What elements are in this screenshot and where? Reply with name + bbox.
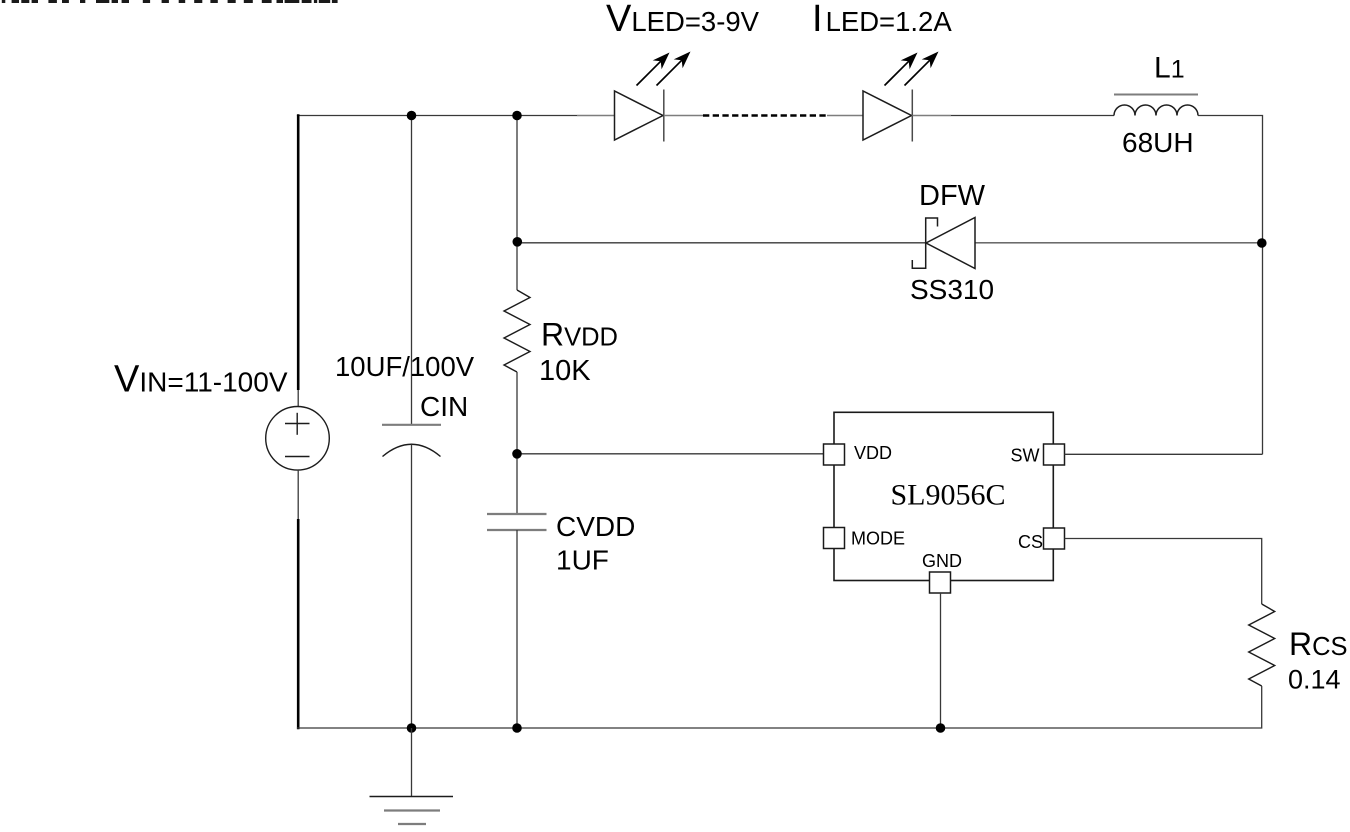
wire to inductor: [951, 115, 1114, 117]
svg-text:SL9056C: SL9056C: [890, 479, 1005, 512]
svg-text:CVDD: CVDD: [556, 511, 635, 542]
inductor L1: [1114, 105, 1198, 116]
wire DFW cathode side (gray): [975, 242, 1263, 244]
svg-text:CIN: CIN: [420, 391, 468, 422]
svg-text:VLED=3-9V: VLED=3-9V: [606, 0, 760, 40]
svg-text:10UF/100V: 10UF/100V: [335, 351, 475, 382]
svg-text:0.14: 0.14: [1288, 665, 1341, 695]
pin VDD square: [824, 444, 845, 465]
resistor RCS: [1249, 604, 1275, 686]
wire VDD rail: [517, 453, 824, 455]
LED D1 arrows: [637, 52, 691, 86]
ground symbol: [370, 728, 454, 824]
svg-text:VDD: VDD: [854, 443, 892, 463]
node dot top rail RVDD: [512, 111, 522, 121]
svg-text:SW: SW: [1011, 446, 1040, 466]
node dot DFW-RVDD: [513, 237, 523, 247]
pin GND square: [930, 572, 951, 593]
LED D2: [863, 90, 912, 142]
capacitor CIN curved plate: [383, 444, 441, 456]
wire DFW rail: [517, 242, 926, 244]
svg-text:GND: GND: [922, 551, 962, 571]
wire RCS to bottom rail: [297, 686, 1262, 728]
node dot bottom GND: [936, 723, 946, 733]
capacitor CIN top plate (gray): [382, 424, 441, 426]
node dot top rail CIN: [407, 111, 417, 121]
pin MODE square: [824, 528, 845, 549]
svg-text:MODE: MODE: [851, 529, 905, 549]
wire inductor to top-right corner: [1198, 116, 1263, 455]
svg-text:CS: CS: [1018, 532, 1043, 552]
wire LED1 cathode lead (gray): [664, 115, 703, 117]
wire top rail left: [297, 115, 577, 117]
pin SW square: [1044, 444, 1065, 465]
node dot bottom CIN: [407, 723, 417, 733]
wire GND pin to bottom rail: [940, 593, 942, 728]
wire LED2 anode lead (gray): [827, 115, 863, 117]
svg-text:10K: 10K: [539, 355, 591, 387]
pin CS square: [1044, 528, 1065, 549]
node dot bottom CVDD: [512, 723, 522, 733]
left rail thin to source: [297, 390, 299, 407]
CVDD branch wire lower: [516, 530, 518, 728]
wire CS rail: [1065, 539, 1262, 605]
LED D1: [615, 90, 664, 142]
inductor L1 core bar (gray): [1114, 94, 1198, 96]
voltage source VIN: [266, 407, 330, 471]
IC U1 SL9056C body: [834, 412, 1053, 580]
RVDD branch wire lower: [516, 372, 518, 514]
svg-text:L1: L1: [1154, 52, 1185, 85]
node dot VDD-RVDD: [512, 449, 522, 459]
diode DFW SS310 (schottky): [912, 218, 975, 269]
RVDD branch wire upper: [516, 116, 518, 291]
svg-text:SS310: SS310: [910, 274, 994, 305]
clipped heading text at top edge: [2, 0, 338, 3]
node junction dot DFW-right: [1257, 238, 1267, 248]
left rail thick upper: [297, 114, 300, 390]
svg-text:68UH: 68UH: [1122, 127, 1194, 158]
resistor RVDD: [504, 290, 530, 372]
LED D2 arrows: [885, 52, 939, 86]
wire dashed LED string: [703, 114, 827, 116]
capacitor CIN branch wire lower: [411, 445, 413, 729]
wire LED1 anode lead (gray): [577, 115, 615, 117]
wire SW rail: [1065, 453, 1263, 455]
svg-text:DFW: DFW: [919, 180, 986, 212]
wire LED2 cathode lead (gray): [913, 115, 952, 117]
left rail thin below source: [297, 470, 299, 519]
capacitor CIN branch wire upper: [411, 116, 413, 425]
left rail thick lower: [297, 519, 300, 729]
svg-text:ILED=1.2A: ILED=1.2A: [812, 0, 952, 40]
capacitor CVDD plates (gray): [487, 513, 547, 515]
svg-text:1UF: 1UF: [556, 545, 609, 576]
